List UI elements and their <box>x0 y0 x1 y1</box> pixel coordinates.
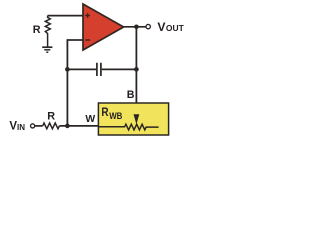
node junction output <box>134 25 139 30</box>
wire left feedback vertical <box>66 39 68 126</box>
wire inverting input <box>67 39 82 41</box>
svg-text:R: R <box>101 105 108 119</box>
svg-text:WB: WB <box>109 110 122 121</box>
wire noninverting input <box>48 15 83 17</box>
wire capacitor left <box>67 68 96 70</box>
op-amp minus mark <box>85 39 90 41</box>
resistor R1 (top-left vertical) <box>45 16 50 47</box>
op-amp plus mark <box>85 13 90 18</box>
wire to pot W terminal <box>59 125 98 127</box>
svg-text:W: W <box>85 114 95 125</box>
svg-text:OUT: OUT <box>166 23 185 33</box>
node junction VIN-feedback <box>65 124 70 129</box>
svg-text:IN: IN <box>17 123 25 132</box>
pot internal resistor element <box>98 124 158 130</box>
wire VIN lead <box>35 125 43 127</box>
wiper arrow into pot <box>134 114 140 124</box>
node junction right-cap <box>134 67 139 72</box>
svg-text:R: R <box>47 110 55 122</box>
digital pot R2 box <box>98 103 168 135</box>
capacitor C1 <box>97 63 101 76</box>
svg-text:R: R <box>33 24 41 36</box>
svg-text:B: B <box>127 89 135 101</box>
wire feedback right vertical <box>135 27 137 115</box>
wire capacitor right <box>102 68 137 70</box>
resistor R3 (bottom horizontal) <box>43 123 60 129</box>
ground <box>42 47 52 52</box>
terminal VOUT circle <box>146 24 150 28</box>
op-amp U1 <box>83 4 124 50</box>
terminal VIN circle <box>31 124 35 128</box>
wire output <box>123 26 146 28</box>
node junction left-cap <box>65 67 70 72</box>
